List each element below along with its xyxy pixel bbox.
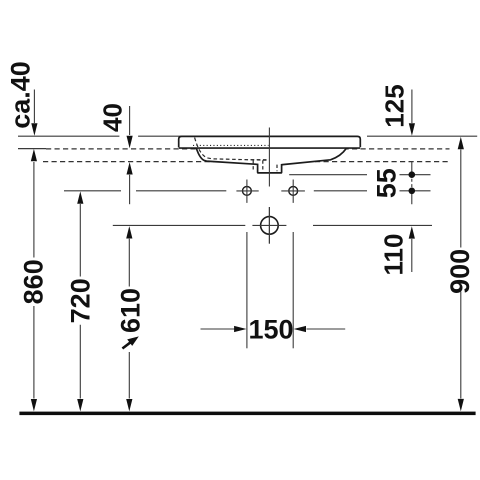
drain hole circle bbox=[261, 217, 279, 235]
vertical centerline axis bbox=[268, 128, 270, 244]
dimension 125 line with down arrow bbox=[411, 90, 413, 124]
washbasin rim top and side edges bbox=[179, 136, 361, 147]
left fixing hole circle bbox=[243, 187, 252, 196]
dimension 150 right leader with left arrow bbox=[307, 328, 346, 330]
countertop top edge line left segment bbox=[18, 135, 190, 137]
tap hole reference line y=190.8 bbox=[64, 190, 431, 192]
dimension 40 upper line with down arrow bbox=[129, 106, 131, 135]
svg-text:150: 150 bbox=[248, 314, 293, 344]
right fixing hole crosshair bbox=[281, 180, 305, 203]
left fixing hole crosshair bbox=[236, 180, 258, 203]
hidden edge dashed line lower bbox=[43, 161, 450, 163]
washbasin outline (side profile, white filled) bbox=[179, 136, 361, 173]
svg-text:900: 900 bbox=[445, 249, 475, 294]
svg-text:40: 40 bbox=[98, 103, 128, 132]
hidden inner bowl dashed line bbox=[195, 138, 267, 161]
dimension 860 line with up arrow at top bbox=[31, 149, 37, 161]
svg-text:55: 55 bbox=[372, 168, 402, 198]
hidden edge dashed line upper bbox=[46, 148, 450, 150]
svg-text:125: 125 bbox=[380, 84, 410, 127]
dimension ca.40 upper line with down arrow bbox=[33, 90, 35, 124]
washbasin bowl outer contour bbox=[196, 148, 346, 173]
dimension 55 vertical line with dot terminators bbox=[411, 162, 413, 204]
dimension 150 extension line right bbox=[292, 232, 294, 348]
hidden drain right dashed edge bbox=[276, 165, 278, 172]
upper reference line y=174.7 bbox=[289, 174, 430, 176]
floor line bbox=[19, 412, 475, 416]
countertop top edge line right segment bbox=[367, 135, 477, 137]
svg-text:110: 110 bbox=[379, 234, 409, 276]
dimension 610 line with arrows bbox=[126, 226, 132, 238]
dimension 900 line with arrows bbox=[458, 137, 464, 149]
diagonal pointer arrow bbox=[122, 342, 130, 348]
hidden drain top dashed line bbox=[251, 159, 269, 161]
svg-text:860: 860 bbox=[18, 259, 48, 304]
dimension 150 extension line left bbox=[246, 232, 248, 348]
hidden drain left dashed edge bbox=[252, 160, 254, 171]
dimension 110 up arrow with tail bbox=[409, 226, 415, 238]
dimension 40 lower up arrow with tail bbox=[127, 162, 133, 174]
svg-text:ca.40: ca.40 bbox=[5, 61, 35, 129]
drain hole crosshair bbox=[252, 207, 286, 244]
svg-text:720: 720 bbox=[65, 278, 95, 323]
hidden drain middle dashed edge bbox=[262, 160, 264, 171]
washbasin rim bottom edge bbox=[179, 147, 360, 149]
right fixing hole circle bbox=[289, 187, 298, 196]
countertop bottom edge solid segment at wall bbox=[18, 148, 46, 150]
fine dotted line across rim bbox=[193, 144, 269, 146]
drain reference line y=225.4 bbox=[113, 224, 432, 226]
dimension 150 left leader with right arrow bbox=[201, 328, 235, 330]
dimension 720 line with arrows bbox=[77, 191, 83, 203]
svg-text:610: 610 bbox=[115, 288, 145, 333]
